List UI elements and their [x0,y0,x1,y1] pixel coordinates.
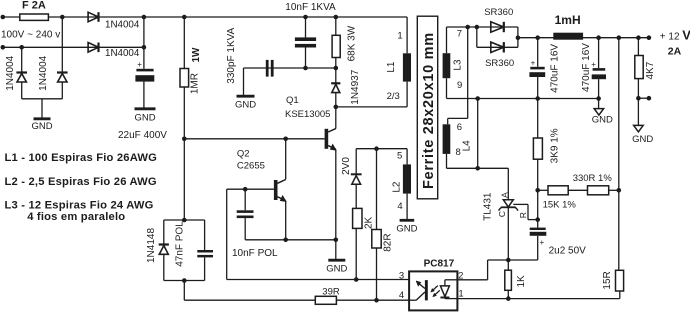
svg-text:1N4148: 1N4148 [146,228,157,263]
svg-text:9: 9 [457,80,462,91]
svg-text:GND: GND [632,134,653,145]
svg-text:470uF 16V: 470uF 16V [581,43,592,92]
svg-text:+ 12: + 12 [660,31,680,42]
svg-text:PC817: PC817 [424,259,455,270]
svg-text:1N4937: 1N4937 [350,69,361,104]
svg-text:330R 1%: 330R 1% [573,173,613,184]
svg-text:2K: 2K [364,216,375,229]
svg-text:+: + [591,60,596,69]
svg-text:L1 - 100 Espiras Fio 26AWG: L1 - 100 Espiras Fio 26AWG [5,152,158,164]
svg-text:TL431: TL431 [482,192,493,221]
svg-text:+: + [137,60,142,69]
svg-text:1N4004: 1N4004 [38,55,49,90]
svg-text:+: + [540,238,545,247]
svg-text:1mH: 1mH [555,13,581,27]
svg-text:1N4004: 1N4004 [105,19,140,30]
svg-text:F 2A: F 2A [22,0,46,12]
svg-text:1K: 1K [516,275,527,288]
svg-text:C: C [497,211,507,217]
svg-text:GND: GND [396,223,417,234]
svg-text:GND: GND [235,100,256,111]
svg-text:GND: GND [31,121,52,132]
svg-text:10nF 1KVA: 10nF 1KVA [285,2,336,13]
svg-text:GND: GND [326,263,347,274]
svg-text:2A: 2A [668,46,682,58]
svg-text:2u2 50V: 2u2 50V [549,245,587,256]
svg-text:3K9 1%: 3K9 1% [550,128,561,163]
svg-text:5: 5 [397,150,402,161]
svg-text:15R: 15R [602,271,613,289]
svg-text:4: 4 [399,290,404,301]
svg-text:1MR: 1MR [189,73,200,94]
svg-text:V: V [682,28,690,43]
svg-text:39R: 39R [322,287,340,298]
svg-text:Q2: Q2 [237,149,250,160]
svg-text:1N4004: 1N4004 [105,48,140,59]
svg-text:68K 3W: 68K 3W [347,25,358,61]
svg-text:SR360: SR360 [484,7,513,18]
svg-text:L4: L4 [462,140,473,152]
svg-text:22uF 400V: 22uF 400V [118,130,167,141]
svg-text:2V0: 2V0 [341,157,352,175]
svg-text:R: R [518,212,528,218]
svg-text:C2655: C2655 [237,161,265,172]
svg-text:Q1: Q1 [286,95,299,106]
svg-text:330pF 1KVA: 330pF 1KVA [226,27,237,83]
svg-text:6: 6 [457,122,462,133]
svg-text:47nF POL: 47nF POL [174,221,185,267]
svg-text:2: 2 [458,270,463,281]
svg-text:1: 1 [397,31,402,42]
svg-text:L2 - 2,5 Espiras Fio 26 AWG: L2 - 2,5 Espiras Fio 26 AWG [5,176,157,188]
svg-text:1W: 1W [191,47,202,63]
svg-text:GND: GND [134,113,155,124]
svg-text:4: 4 [397,201,402,212]
svg-text:L2: L2 [392,181,403,193]
svg-text:100V ~ 240 v: 100V ~ 240 v [1,29,60,40]
svg-text:82R: 82R [383,233,394,251]
svg-text:Ferrite 28x20x10 mm: Ferrite 28x20x10 mm [421,32,437,189]
svg-text:4 fios em paralelo: 4 fios em paralelo [27,211,125,223]
svg-text:15K 1%: 15K 1% [543,199,577,210]
svg-text:2/3: 2/3 [387,91,400,102]
svg-text:470uF 16V: 470uF 16V [549,44,560,93]
svg-text:7: 7 [457,29,462,40]
svg-text:1: 1 [458,289,463,300]
svg-text:8: 8 [456,147,461,158]
svg-text:4K7: 4K7 [645,61,656,79]
svg-text:A: A [499,192,509,198]
svg-text:3: 3 [399,270,404,281]
svg-text:GND: GND [592,114,613,125]
svg-text:10nF POL: 10nF POL [232,248,278,259]
svg-text:KSE13005: KSE13005 [285,109,330,120]
svg-text:L3: L3 [453,59,464,71]
svg-text:L1: L1 [386,61,397,73]
svg-text:SR360: SR360 [485,58,514,69]
svg-text:L3 - 12 Espiras Fio 24 AWG: L3 - 12 Espiras Fio 24 AWG [5,200,154,212]
svg-text:+: + [531,59,536,68]
svg-text:1N4004: 1N4004 [5,55,16,90]
